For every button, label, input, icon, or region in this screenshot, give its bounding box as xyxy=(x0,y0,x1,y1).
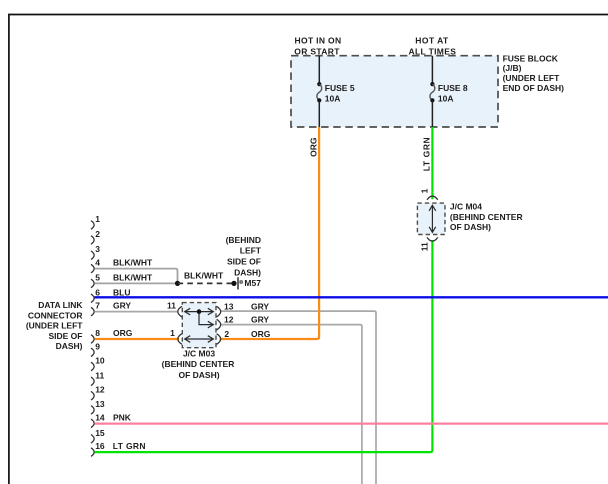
svg-text:J/C M04: J/C M04 xyxy=(450,202,482,212)
connector M57 xyxy=(231,277,242,289)
pin labels J/C M03 xyxy=(167,301,234,340)
wire fuse 8 input lead xyxy=(431,56,433,84)
label FUSE 5 10A xyxy=(325,83,355,104)
wire BLU DLC pin 6 xyxy=(95,296,608,298)
pin labels J/C M04 xyxy=(419,188,429,251)
svg-text:BLK/WHT: BLK/WHT xyxy=(184,270,224,280)
svg-text:OR START: OR START xyxy=(294,46,340,56)
svg-text:ORG: ORG xyxy=(251,329,271,339)
svg-text:LT GRN: LT GRN xyxy=(422,137,432,172)
svg-text:FUSE 8: FUSE 8 xyxy=(438,83,468,93)
wire GRY J/C M03 pin 13 xyxy=(220,311,376,484)
wire fuse 5 input lead xyxy=(318,56,320,84)
wire ORG J/C M03 pin 2 to fuse 5 xyxy=(220,127,320,339)
label J/C M03 (BEHIND CENTER OF DASH) xyxy=(162,349,235,380)
wire LT GRN J/C M04 pin 11 to DLC pin 16 xyxy=(95,240,433,452)
svg-text:2: 2 xyxy=(95,229,100,239)
svg-text:GRY: GRY xyxy=(251,301,269,311)
wire fuse 5 output lead xyxy=(318,100,320,127)
wire BLK/WHT DLC pin 4 xyxy=(95,269,178,284)
svg-text:ALL TIMES: ALL TIMES xyxy=(409,46,457,56)
svg-text:ORG: ORG xyxy=(113,328,133,338)
svg-text:10A: 10A xyxy=(438,94,454,104)
svg-text:6: 6 xyxy=(95,287,100,297)
svg-text:(BEHIND CENTER: (BEHIND CENTER xyxy=(450,212,523,222)
label HOT AT / ALL TIMES xyxy=(409,36,457,57)
svg-text:OF DASH): OF DASH) xyxy=(450,222,491,232)
label FUSE BLOCK (J/B) (UNDER LEFT END OF DASH) xyxy=(503,54,565,93)
label HOT IN ON / OR START xyxy=(294,36,341,57)
svg-text:SIDE OF: SIDE OF xyxy=(227,256,261,266)
svg-text:FUSE BLOCK: FUSE BLOCK xyxy=(503,54,559,64)
svg-text:M57: M57 xyxy=(244,278,261,288)
svg-text:10: 10 xyxy=(95,356,105,366)
svg-text:13: 13 xyxy=(224,301,234,311)
data link connector pins xyxy=(91,221,94,457)
svg-text:HOT AT: HOT AT xyxy=(415,36,449,46)
wire ORG DLC pin 8 xyxy=(95,338,180,340)
svg-text:14: 14 xyxy=(95,412,105,422)
wire BLK/WHT dashed to M57 xyxy=(178,282,235,284)
splice junction dot xyxy=(175,281,180,286)
wire BLK/WHT DLC pin 5 xyxy=(95,282,178,284)
svg-text:(J/B): (J/B) xyxy=(503,63,522,73)
svg-text:15: 15 xyxy=(95,428,105,438)
svg-text:11: 11 xyxy=(167,301,176,311)
svg-text:PNK: PNK xyxy=(113,412,132,422)
junction connector J/C M04 xyxy=(417,196,445,241)
label J/C M04 (BEHIND CENTER OF DASH) xyxy=(450,202,523,232)
svg-text:DASH): DASH) xyxy=(56,341,83,351)
svg-text:DASH): DASH) xyxy=(234,267,261,277)
svg-text:1: 1 xyxy=(420,188,430,193)
svg-text:7: 7 xyxy=(95,301,100,311)
svg-text:12: 12 xyxy=(95,385,105,395)
svg-text:HOT IN ON: HOT IN ON xyxy=(295,36,342,46)
wire GRY J/C M03 pin 12 xyxy=(220,325,362,484)
svg-text:BLU: BLU xyxy=(113,287,130,297)
svg-text:16: 16 xyxy=(95,441,105,451)
svg-text:DATA LINK: DATA LINK xyxy=(38,300,83,310)
svg-text:13: 13 xyxy=(95,399,105,409)
svg-text:9: 9 xyxy=(95,341,100,351)
svg-text:OF DASH): OF DASH) xyxy=(178,370,219,380)
svg-text:1: 1 xyxy=(95,214,100,224)
svg-text:(UNDER LEFT: (UNDER LEFT xyxy=(503,73,560,83)
svg-text:GRY: GRY xyxy=(113,301,131,311)
svg-text:ORG: ORG xyxy=(309,137,319,157)
svg-text:BLK/WHT: BLK/WHT xyxy=(113,272,153,282)
svg-text:3: 3 xyxy=(95,244,100,254)
wire fuse 8 output lead xyxy=(431,100,433,127)
svg-text:CONNECTOR: CONNECTOR xyxy=(28,310,83,320)
label (BEHIND LEFT SIDE OF DASH) xyxy=(226,235,262,278)
label FUSE 8 10A xyxy=(438,83,468,104)
svg-text:LEFT: LEFT xyxy=(240,246,262,256)
fuse block J/B box xyxy=(291,56,498,127)
svg-text:1: 1 xyxy=(170,328,175,338)
svg-text:(UNDER LEFT: (UNDER LEFT xyxy=(26,321,83,331)
fuse F5 xyxy=(317,82,322,103)
svg-text:8: 8 xyxy=(95,328,100,338)
fuse F8 xyxy=(430,82,435,103)
svg-text:SIDE OF: SIDE OF xyxy=(48,331,82,341)
svg-text:5: 5 xyxy=(95,272,100,282)
svg-text:LT GRN: LT GRN xyxy=(113,441,146,451)
pin numbers 1-16 xyxy=(95,214,105,451)
wire LT GRN fuse 8 to J/C M04 xyxy=(431,127,433,199)
svg-text:J/C M03: J/C M03 xyxy=(183,349,215,359)
svg-text:(BEHIND CENTER: (BEHIND CENTER xyxy=(162,359,235,369)
svg-text:BLK/WHT: BLK/WHT xyxy=(113,258,153,268)
svg-text:10A: 10A xyxy=(325,94,341,104)
svg-text:2: 2 xyxy=(224,329,229,339)
svg-text:(BEHIND: (BEHIND xyxy=(226,235,261,245)
svg-text:END OF DASH): END OF DASH) xyxy=(503,83,565,93)
svg-text:12: 12 xyxy=(224,314,234,324)
junction connector J/C M03 xyxy=(178,303,221,348)
label DATA LINK CONNECTOR (UNDER LEFT SIDE OF DASH) xyxy=(26,300,84,351)
svg-text:FUSE 5: FUSE 5 xyxy=(325,83,355,93)
svg-text:11: 11 xyxy=(95,370,104,380)
svg-text:4: 4 xyxy=(95,258,100,268)
svg-text:GRY: GRY xyxy=(251,314,269,324)
wire GRY DLC pin 7 to J/C M03 pin 11 xyxy=(95,311,179,313)
svg-text:11: 11 xyxy=(419,242,429,251)
wire PNK DLC pin 14 xyxy=(95,423,608,425)
